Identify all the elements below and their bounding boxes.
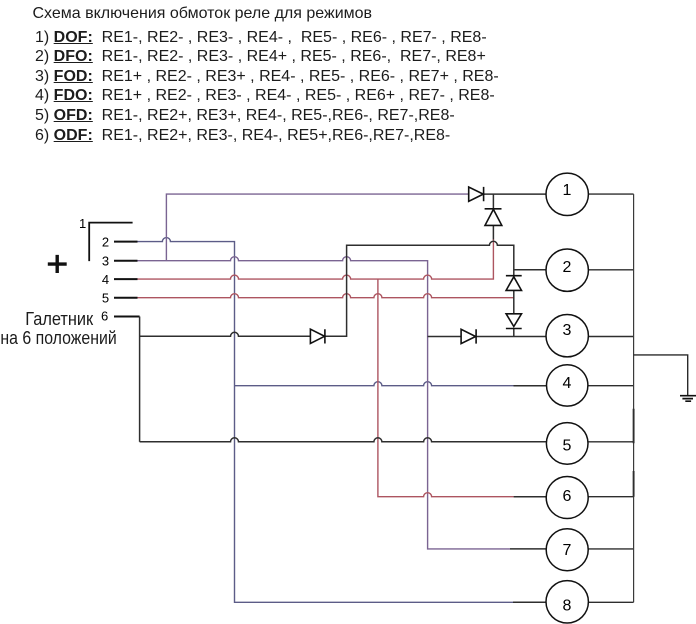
wire common bus (633, 194, 635, 602)
wire relay 3 input line (428, 336, 547, 338)
svg-text:6: 6 (562, 488, 571, 505)
svg-text:Галетник: Галетник (25, 309, 93, 329)
svg-text:6: 6 (101, 308, 108, 323)
wire bus dark segments (633, 409, 635, 497)
switch label Галетник на 6 положений (0, 309, 116, 348)
wire net of contact 3 (purple) to diode D1, relay 3 branch and relay 7 (138, 194, 511, 549)
relay 7 (546, 529, 588, 571)
relay 4 (547, 365, 588, 406)
relay 3 (546, 315, 588, 357)
wire net of contact 5 (red) to diode chain D3/D4 (138, 294, 514, 298)
diode D5 (310, 329, 325, 343)
svg-text:3: 3 (102, 254, 109, 269)
wire net of contact 4 (red) to diode D2 and relay 6 (138, 239, 514, 497)
wire net of contact 2 (blue) to relay 4 and relay 8 (138, 238, 514, 603)
svg-text:1: 1 (79, 216, 86, 231)
relay 5 (546, 423, 588, 465)
ground (680, 396, 696, 402)
plus supply terminal (48, 255, 67, 273)
svg-text:1: 1 (562, 182, 571, 199)
switch position 1 contact (89, 223, 132, 262)
wire relay 2 input branch (514, 269, 546, 271)
svg-text:5: 5 (102, 291, 109, 306)
relay 6 (546, 477, 588, 519)
relay 2 (546, 249, 588, 291)
mode list (35, 28, 499, 146)
svg-text:4: 4 (562, 375, 571, 392)
svg-text:4: 4 (102, 272, 109, 287)
svg-text:2: 2 (562, 259, 571, 276)
svg-text:на 6 положений: на 6 положений (0, 328, 116, 348)
svg-text:2: 2 (102, 234, 109, 249)
diode D3 (506, 276, 522, 291)
title (33, 5, 373, 23)
wire relay 1 input after diode D1 (484, 194, 547, 239)
diode D1 (469, 187, 484, 201)
wire right stubs from relays to bus (588, 194, 633, 602)
svg-text:5: 5 (562, 437, 571, 454)
switch contact stubs 2-5 (114, 242, 140, 317)
svg-text:7: 7 (562, 542, 571, 559)
wire ground branch (634, 355, 688, 395)
diode D2 (485, 209, 502, 226)
wire diode chain segments (513, 290, 515, 336)
relay 1 (546, 173, 588, 215)
diode D6 (461, 329, 476, 343)
wire black stubs into relays 4-8 (510, 386, 546, 603)
relay 8 (546, 581, 588, 623)
svg-text:3: 3 (562, 322, 571, 339)
svg-text:8: 8 (562, 597, 571, 614)
wire net of contact 6 (black) (140, 241, 547, 441)
diode D4 (506, 314, 522, 329)
